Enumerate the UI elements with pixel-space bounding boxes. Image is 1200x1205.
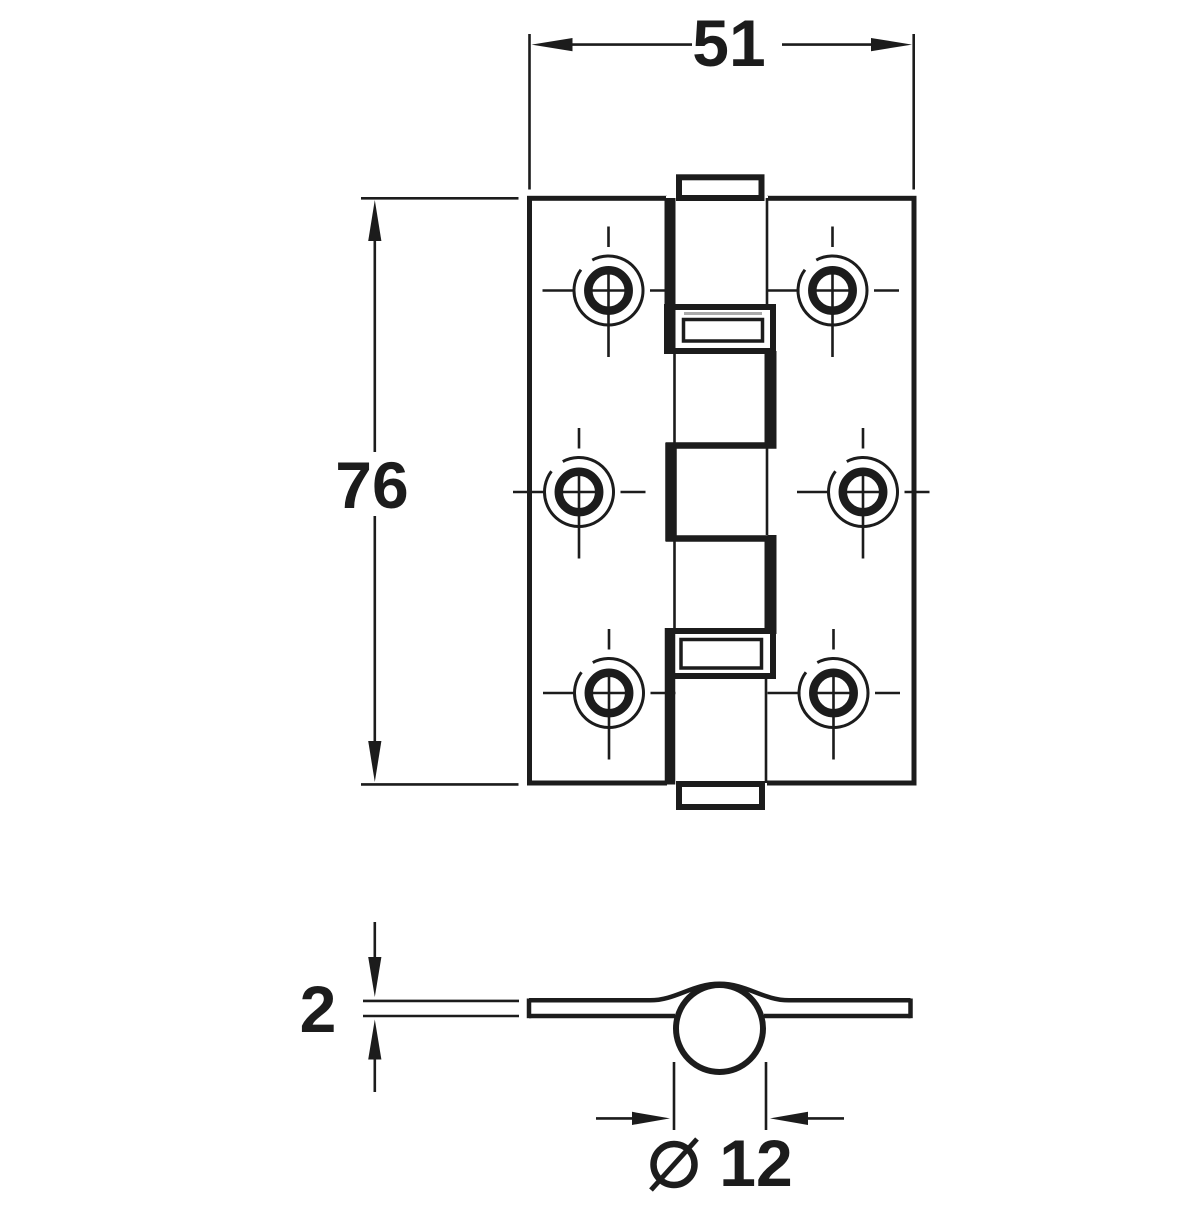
bottom knuckle thick edge [665, 628, 676, 785]
barrel white column [667, 170, 767, 812]
dimension 12 arrows [596, 1117, 844, 1120]
section left leaf [529, 984, 720, 1001]
svg-text:12: 12 [719, 1126, 792, 1200]
section view: thickness extension lines [363, 1001, 519, 1016]
svg-text:51: 51 [692, 6, 765, 80]
svg-text:2: 2 [300, 972, 337, 1046]
joint line C/D [666, 535, 777, 542]
svg-text:76: 76 [335, 448, 408, 522]
knuckle C left thick edge [665, 443, 677, 541]
dimension 76 arrows [373, 239, 376, 742]
dimension 76 extension lines [361, 198, 519, 784]
dimension 2 arrows [373, 922, 376, 1092]
dimension 51 arrows [571, 43, 873, 46]
pin bottom cap [679, 784, 762, 807]
dimension 12 extension lines [674, 1062, 766, 1130]
knuckle white fills [666, 196, 768, 307]
screw hole mid-right [797, 428, 930, 559]
screw hole bottom-right [768, 629, 901, 760]
section right leaf [720, 984, 911, 1001]
bearing band 2 [669, 631, 773, 676]
barrel silhouette right line [766, 198, 767, 783]
screw hole top-right [767, 227, 900, 358]
pin top cap [679, 177, 762, 198]
screw hole top-left [543, 227, 676, 358]
dimension 51 extension lines [530, 34, 914, 190]
bearing band 1 [667, 307, 773, 351]
top knuckle thick edge [665, 198, 676, 354]
barrel silhouette left line [673, 351, 676, 628]
hinge plate outline [530, 198, 915, 783]
knuckle B right thick edge [768, 351, 777, 448]
diameter symbol [654, 1144, 695, 1185]
section barrel circle [676, 985, 763, 1072]
knuckle D right thick edge [768, 535, 777, 634]
screw hole bottom-left [543, 629, 676, 760]
screw hole mid-left [513, 428, 646, 559]
joint line B/C [666, 442, 777, 449]
